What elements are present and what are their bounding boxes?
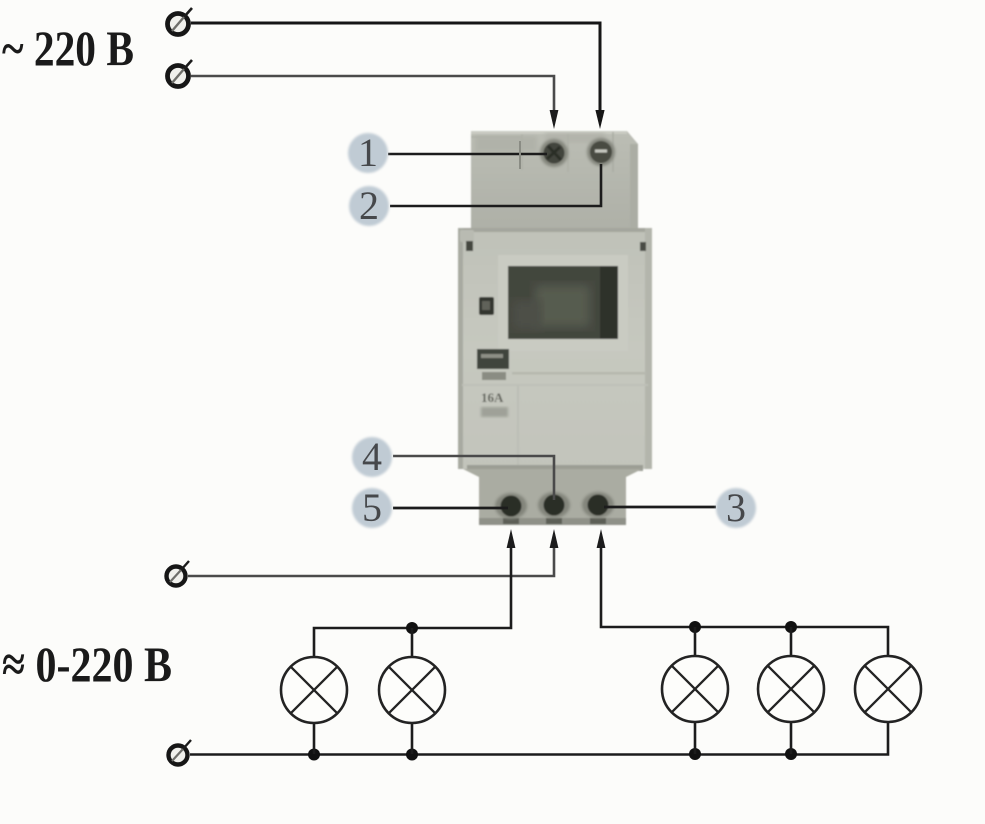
lamp EL1 [281, 657, 347, 723]
wire pin3 to lamp group B [597, 529, 888, 656]
callout 4 [352, 434, 392, 479]
junction B2 top [785, 621, 797, 656]
svg-text:5: 5 [362, 485, 382, 530]
timer device bottom section [463, 465, 643, 525]
svg-text:16A: 16A [481, 390, 504, 405]
top terminal screw 1 [540, 139, 568, 167]
terminal input L [168, 8, 193, 35]
svg-text:2: 2 [359, 183, 379, 228]
svg-text:≈ 0-220 В: ≈ 0-220 В [2, 636, 172, 692]
label ~220V [2, 20, 134, 76]
terminal input N [168, 60, 193, 87]
lamp EL3 [662, 656, 728, 722]
wire N to terminal 1 top [191, 76, 558, 129]
callout 3 [716, 485, 756, 530]
svg-text:1: 1 [358, 130, 378, 175]
timer device photo [458, 131, 652, 525]
wire L to terminal 2 top [191, 23, 605, 129]
mode button [479, 297, 494, 315]
bottom terminal screw 5 [495, 493, 527, 519]
junction A2 top [406, 622, 418, 657]
callout 4 leader [393, 456, 554, 500]
callout 5 [352, 485, 392, 530]
svg-text:3: 3 [726, 485, 746, 530]
svg-text:~ 220 В: ~ 220 В [2, 20, 134, 76]
lamp EL2 [379, 657, 445, 723]
terminal output bottom [169, 740, 192, 765]
top terminal screw 2 [587, 138, 615, 166]
timer device body upper section [471, 131, 638, 228]
terminal block seams [471, 132, 613, 172]
svg-text:4: 4 [362, 434, 382, 479]
junction B1 top [689, 621, 701, 656]
wire pin5 to lamp group A [314, 529, 515, 657]
callout 2 leader [390, 164, 601, 206]
LCD display [498, 255, 628, 351]
wire output top to pin4 [188, 529, 558, 576]
junction B2 bottom [785, 722, 797, 760]
lamp EL5 [855, 656, 921, 722]
bottom terminal screw 3 [582, 492, 614, 518]
IEK logo [477, 349, 509, 380]
callout 1 [348, 130, 388, 175]
terminal output top [167, 561, 190, 586]
callout 2 [349, 183, 389, 228]
junction B1 bottom [689, 722, 701, 760]
timer device main body [458, 228, 652, 469]
junction A1 bottom [308, 723, 320, 761]
wire bottom bus [190, 722, 888, 755]
callout 1 leader [388, 141, 547, 169]
lamp EL4 [758, 656, 824, 722]
label 0-220V [2, 636, 172, 692]
bottom terminal screw 4 [538, 492, 570, 518]
callout 5 leader [393, 507, 508, 510]
rating label 16A [481, 390, 508, 417]
junction A2 bottom [406, 723, 418, 761]
callout 3 leader [604, 506, 716, 509]
